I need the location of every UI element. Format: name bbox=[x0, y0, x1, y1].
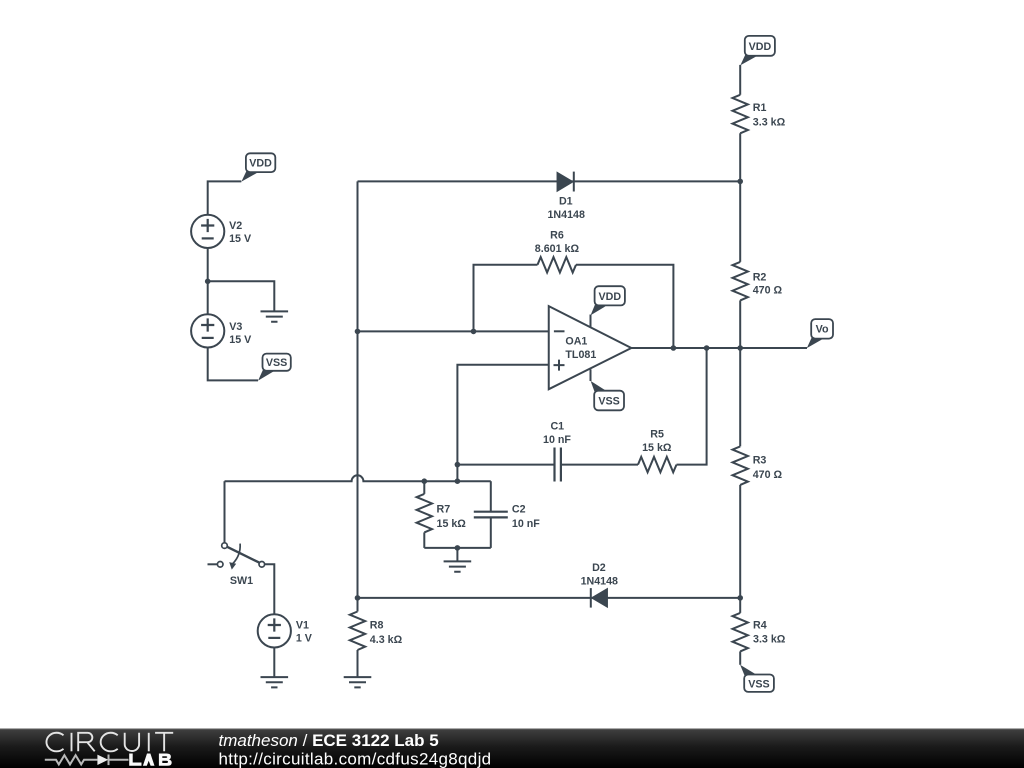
label C1 10 nF bbox=[543, 421, 571, 447]
diode D1 1N4148 bbox=[557, 172, 574, 192]
svg-text:V2: V2 bbox=[229, 220, 242, 232]
svg-text:470 Ω: 470 Ω bbox=[753, 469, 783, 481]
node R6 left / inverting row bbox=[471, 329, 477, 335]
op-amp VSS power pin bbox=[590, 369, 592, 381]
node main column / output bbox=[737, 345, 743, 351]
svg-text:VSS: VSS bbox=[266, 357, 287, 369]
wire VDD flag to V2 top bbox=[208, 181, 242, 214]
wire output row to R3 bbox=[739, 348, 741, 446]
label V1 1 V bbox=[296, 619, 313, 644]
long left vertical wire bbox=[357, 181, 359, 598]
svg-text:1N4148: 1N4148 bbox=[581, 575, 618, 587]
svg-text:3.3 kΩ: 3.3 kΩ bbox=[753, 117, 786, 129]
svg-text:TL081: TL081 bbox=[565, 349, 596, 361]
net flag VSS (left) bbox=[258, 354, 291, 381]
resistor R8 (vertical) bbox=[350, 598, 365, 677]
label C2 10 nF bbox=[512, 504, 540, 530]
label V2 15 V bbox=[229, 220, 252, 245]
node left vertical / D2 row bbox=[355, 595, 361, 601]
resistor R7 (vertical) bbox=[417, 481, 432, 548]
label D1 1N4148 bbox=[547, 196, 584, 221]
CircuitLab logo LAB bbox=[129, 754, 172, 766]
resistor R5 (horizontal) bbox=[638, 457, 677, 472]
capacitor C2 bbox=[474, 481, 508, 548]
wire R5 right up to output row bbox=[677, 348, 707, 465]
ground (V2/V3 midpoint) bbox=[261, 311, 289, 321]
footer title bbox=[219, 731, 492, 768]
switch SW1 bbox=[208, 543, 265, 570]
net flag Vo bbox=[807, 319, 833, 348]
svg-text:3.3 kΩ: 3.3 kΩ bbox=[753, 634, 786, 646]
wire R7/C2 bottom row bbox=[424, 547, 491, 549]
wire V2 to V3 bbox=[207, 248, 209, 314]
net flag VDD (top left) bbox=[241, 153, 275, 181]
svg-text:http://circuitlab.com/cdfus24g: http://circuitlab.com/cdfus24g8qdjd bbox=[219, 750, 492, 768]
svg-text:VDD: VDD bbox=[749, 41, 772, 53]
svg-text:15 kΩ: 15 kΩ bbox=[642, 442, 672, 454]
svg-text:4.3 kΩ: 4.3 kΩ bbox=[370, 634, 403, 646]
net flag VDD (op-amp) bbox=[591, 286, 625, 315]
label SW1 bbox=[230, 575, 253, 587]
resistor R3 (vertical) bbox=[733, 446, 748, 484]
node R6 right / output bbox=[671, 345, 677, 351]
svg-text:OA1: OA1 bbox=[565, 336, 587, 348]
label R7 15 kohm bbox=[437, 504, 467, 530]
svg-text:tmatheson / ECE 3122 Lab 5: tmatheson / ECE 3122 Lab 5 bbox=[219, 731, 439, 750]
node non-inverting vertical / C1 row bbox=[455, 462, 461, 468]
label OA1 TL081 bbox=[565, 336, 596, 362]
wire V1 to ground bbox=[273, 648, 275, 678]
svg-text:R3: R3 bbox=[753, 455, 767, 467]
svg-text:VDD: VDD bbox=[599, 291, 622, 303]
svg-text:R8: R8 bbox=[370, 620, 384, 632]
op-amp VDD power pin bbox=[590, 315, 592, 328]
ground (V1) bbox=[261, 677, 289, 687]
svg-text:C1: C1 bbox=[550, 421, 564, 433]
wire SW1 common to V1 bbox=[265, 564, 275, 614]
node main column / D2 row bbox=[737, 595, 743, 601]
wire non-inverting input bbox=[457, 365, 548, 482]
wire D1 row bbox=[358, 180, 741, 182]
svg-text:10 nF: 10 nF bbox=[543, 434, 571, 446]
node non-inverting vertical / R7 row bbox=[455, 478, 461, 484]
ground (R8) bbox=[344, 677, 372, 687]
net flag VDD (top right) bbox=[740, 36, 774, 65]
voltage source V3 bbox=[191, 314, 224, 347]
resistor R2 (vertical) bbox=[733, 262, 748, 300]
label R1 3.3 kohm bbox=[753, 102, 786, 128]
wire C1 to R5 bbox=[561, 464, 638, 466]
CircuitLab logo CIRCUIT bbox=[46, 733, 173, 752]
diode D2 1N4148 bbox=[591, 588, 607, 608]
resistor R1 (vertical) bbox=[733, 95, 748, 134]
svg-text:R6: R6 bbox=[550, 230, 564, 242]
voltage source V1 bbox=[258, 614, 291, 647]
wire V3 to VSS flag bbox=[208, 348, 258, 381]
svg-text:Vo: Vo bbox=[816, 324, 829, 336]
wire R4 to VSS flag bbox=[739, 651, 741, 664]
node R1 bottom / D1 row bbox=[737, 179, 743, 185]
label R5 15 kohm bbox=[642, 429, 672, 455]
wire R2 to output row bbox=[739, 300, 741, 348]
wire D2 row to R4 bbox=[739, 598, 741, 613]
label D2 1N4148 bbox=[581, 562, 618, 587]
svg-text:V3: V3 bbox=[229, 321, 242, 333]
resistor R6 (horizontal) bbox=[538, 257, 577, 272]
wire R6 left branch bbox=[474, 265, 538, 332]
net flag VSS (bottom right) bbox=[740, 665, 774, 692]
svg-text:15 V: 15 V bbox=[229, 233, 252, 245]
node R5 right / output bbox=[704, 345, 710, 351]
node left vertical / inverting row bbox=[355, 329, 361, 335]
label R3 470 ohm bbox=[753, 455, 783, 481]
svg-text:15 kΩ: 15 kΩ bbox=[437, 518, 467, 530]
label R6 8.601 kohm bbox=[535, 230, 580, 256]
ground (R7/C2) bbox=[444, 561, 472, 571]
svg-text:C2: C2 bbox=[512, 504, 526, 516]
svg-text:R1: R1 bbox=[753, 102, 767, 114]
svg-text:R2: R2 bbox=[753, 272, 767, 284]
svg-text:V1: V1 bbox=[296, 619, 309, 631]
net flag VSS (op-amp) bbox=[591, 381, 624, 410]
svg-text:R7: R7 bbox=[437, 504, 451, 516]
wire inverting input row bbox=[358, 330, 549, 332]
wire D2 row bbox=[358, 597, 741, 599]
wire output row bbox=[631, 347, 807, 349]
op-amp OA1 TL081 bbox=[549, 306, 632, 389]
svg-text:1 V: 1 V bbox=[296, 632, 313, 644]
svg-text:VDD: VDD bbox=[249, 158, 272, 170]
CircuitLab logo squiggle (resistor + diode) bbox=[45, 755, 129, 766]
label R8 4.3 kohm bbox=[370, 620, 403, 646]
svg-text:470 Ω: 470 Ω bbox=[753, 285, 783, 297]
svg-text:SW1: SW1 bbox=[230, 575, 253, 587]
svg-text:8.601 kΩ: 8.601 kΩ bbox=[535, 243, 580, 255]
wire R3 to D2 row bbox=[739, 485, 741, 598]
label V3 15 V bbox=[229, 321, 252, 346]
node R7 top bbox=[422, 478, 428, 484]
wire C1 row left bbox=[457, 464, 554, 466]
switch row wire with hop over left vertical bbox=[225, 475, 491, 481]
svg-text:R5: R5 bbox=[650, 429, 664, 441]
capacitor C1 bbox=[555, 448, 561, 482]
node between V2 and V3 bbox=[205, 279, 211, 285]
label R2 470 ohm bbox=[753, 272, 783, 297]
wire R1 to R2 bbox=[739, 133, 741, 262]
wire to ground (R7/C2) bbox=[456, 548, 458, 562]
wire VDD to R1 bbox=[739, 65, 741, 95]
resistor R4 (vertical) bbox=[733, 613, 748, 652]
svg-text:10 nF: 10 nF bbox=[512, 518, 540, 530]
svg-text:D1: D1 bbox=[559, 196, 573, 208]
wire R6 right branch bbox=[576, 265, 673, 348]
wire junction to ground bbox=[208, 281, 275, 311]
node ground stem bbox=[455, 545, 461, 551]
svg-text:D2: D2 bbox=[592, 562, 606, 574]
voltage source V2 bbox=[191, 215, 224, 248]
svg-text:R4: R4 bbox=[753, 619, 767, 631]
wire switch row down to SW1 bbox=[224, 481, 226, 543]
label R4 3.3 kohm bbox=[753, 619, 786, 645]
svg-text:1N4148: 1N4148 bbox=[547, 209, 584, 221]
svg-text:VSS: VSS bbox=[748, 678, 769, 690]
svg-text:VSS: VSS bbox=[598, 396, 619, 408]
svg-text:15 V: 15 V bbox=[229, 334, 252, 346]
